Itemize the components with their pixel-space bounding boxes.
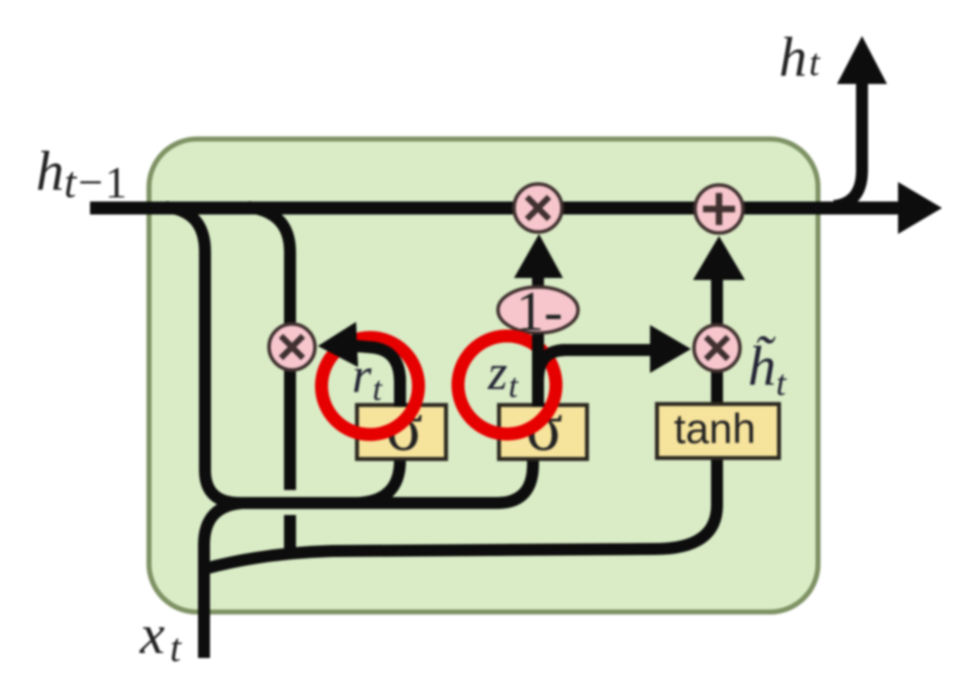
- arrowhead h_t up: [837, 36, 887, 84]
- wire branch B: h down to reset multiply node: [248, 207, 290, 326]
- wire h_{t-1} main horizontal line: [90, 202, 906, 215]
- svg-text:ht: ht: [779, 27, 821, 89]
- tanh layer box: [657, 404, 779, 458]
- arrowhead into tanh multiply node: [650, 325, 691, 373]
- svg-text:ht−1: ht−1: [36, 141, 129, 207]
- wire z upper segment redrawn over ring: [532, 334, 544, 407]
- wire z line through σ2 up to 1- ellipse: [532, 334, 544, 450]
- wire tanh box up to multiply node: [711, 372, 723, 450]
- wire r hook redrawn over ring: [356, 346, 400, 407]
- wire bus 2 from x_t junction to tanh input: [204, 410, 717, 569]
- sigmoid gate box σ2 (update gate): [499, 405, 587, 459]
- wire x_t input vertical merging into bus 1: [204, 503, 242, 658]
- svg-text:xt: xt: [139, 604, 182, 670]
- wire z right branch redrawn over ring: [538, 350, 652, 380]
- svg-text:tanh: tanh: [674, 405, 756, 452]
- sigmoid gate box σ1 (reset gate): [357, 405, 446, 459]
- 1- ellipse node: [498, 287, 578, 333]
- wire σ1 feed from bus 1 up through box to r hook and arrow: [356, 346, 400, 503]
- wire below reset node crossing bus 1 with gap: [284, 369, 296, 490]
- wire 1- ellipse up to x node with arrowhead: [532, 272, 544, 292]
- reset multiply node: [269, 324, 315, 370]
- wire branch A: h down, gate bus, up into σ2: [166, 207, 533, 503]
- wire h_t output branch up: [834, 84, 862, 206]
- wire stub joining bus 2: [284, 515, 296, 554]
- wire z branch right to tanh multiply: [538, 350, 652, 380]
- arrowhead r_t into reset node: [318, 322, 358, 367]
- arrowhead h line output right: [898, 182, 942, 234]
- red annotation circle around r_t: [322, 338, 419, 435]
- multiply node on h line: [514, 184, 562, 232]
- red annotation circle around z_t: [458, 336, 556, 434]
- arrowhead r_t redrawn over ring: [318, 322, 358, 367]
- plus node on h line: [695, 185, 743, 233]
- cell body (green rounded rectangle): [149, 139, 818, 612]
- wire tanh multiply up to plus node with arrowhead: [711, 274, 723, 327]
- tanh multiply node: [694, 325, 740, 371]
